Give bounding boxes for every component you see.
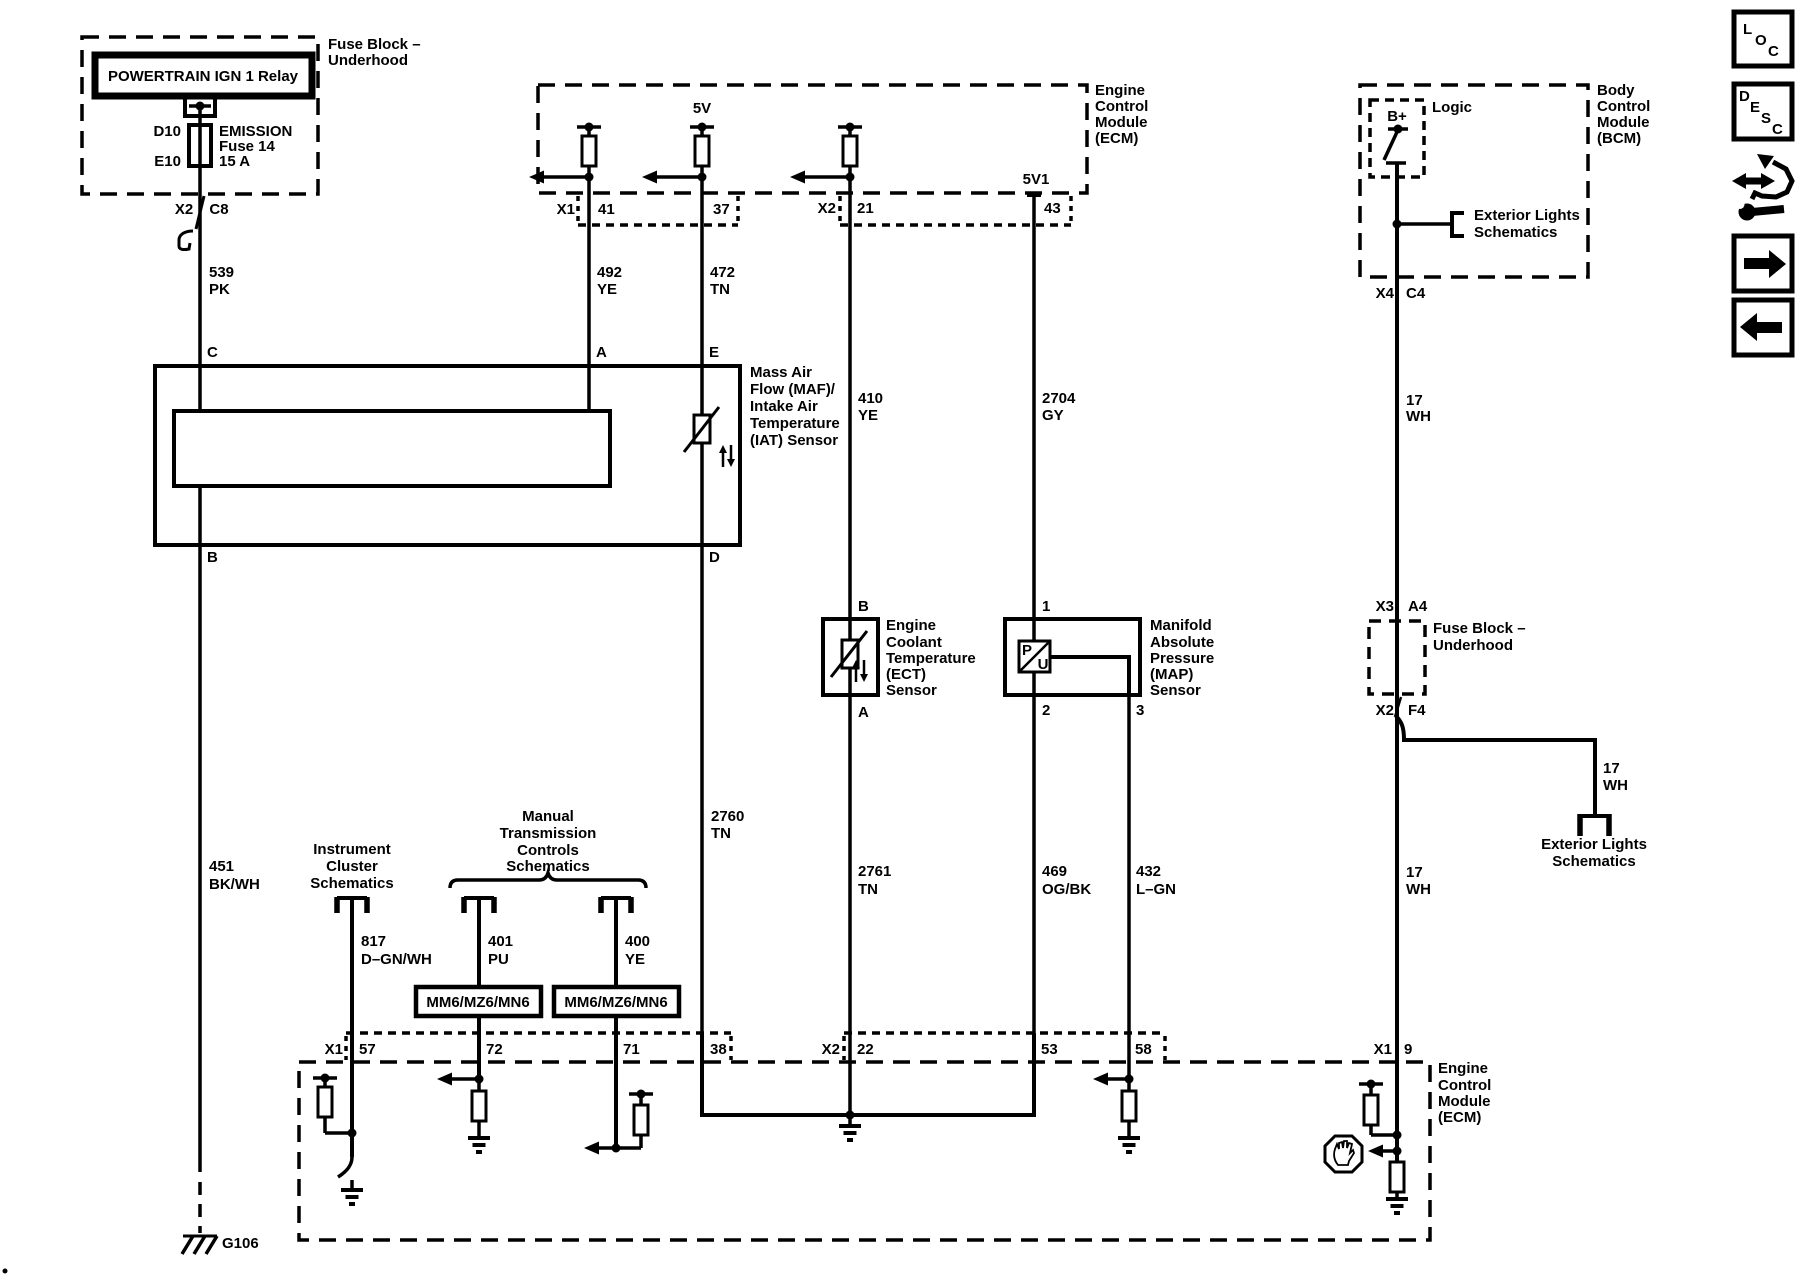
svg-text:Engine: Engine [886,617,936,634]
fuse block underhood (right) dashed box [1369,620,1526,694]
svg-text:2704: 2704 [1042,390,1076,407]
MAP sensor box [1005,598,1144,719]
svg-text:Engine: Engine [1095,82,1145,99]
manual transmission controls schematics label and brace [450,808,646,888]
manual trans connector 1 [464,897,494,913]
svg-text:17: 17 [1603,760,1620,777]
svg-text:D: D [709,549,720,566]
svg-text:WH: WH [1406,881,1431,898]
5V label [693,100,711,117]
svg-text:Module: Module [1438,1093,1491,1110]
svg-text:U: U [1038,656,1049,673]
svg-text:O: O [1755,32,1767,49]
ECM bottom dashed box [299,1060,1491,1240]
resistor at pin 57 (ECM internal) [313,1074,357,1138]
svg-text:Cluster: Cluster [326,858,378,875]
wire 492 YE [589,195,622,411]
ECM top dashed box [538,82,1148,193]
ECT sensor label [886,617,976,699]
svg-text:469: 469 [1042,863,1067,880]
svg-text:C8: C8 [209,201,228,218]
svg-text:72: 72 [486,1041,503,1058]
svg-text:X4: X4 [1376,285,1395,302]
svg-text:C: C [1772,121,1783,138]
svg-text:(ECM): (ECM) [1095,130,1138,147]
relay POWERTRAIN IGN 1 Relay [95,55,312,96]
svg-text:G106: G106 [222,1235,259,1252]
svg-text:Schematics: Schematics [1474,224,1557,241]
svg-text:D: D [1739,88,1750,105]
svg-text:PU: PU [488,951,509,968]
exterior lights schematics connector (right) [1541,814,1647,870]
wire 2760 TN [702,443,744,1115]
svg-text:A: A [596,344,607,361]
svg-text:Fuse Block –: Fuse Block – [1433,620,1526,637]
svg-text:2760: 2760 [711,808,744,825]
signal arrow at pin 41 [529,171,594,184]
resistor 5V pull-up at pin 21 [838,123,862,196]
svg-text:F4: F4 [1408,702,1426,719]
svg-text:Manual: Manual [522,808,574,825]
svg-text:YE: YE [625,951,645,968]
svg-text:E: E [1750,99,1760,116]
MAP internal wire to pin 3 [1050,657,1129,694]
svg-text:43: 43 [1044,200,1061,217]
resistor at pin 72 [468,1079,490,1152]
svg-text:WH: WH [1603,777,1628,794]
connector X2 / C8 labels [175,201,229,218]
svg-text:1: 1 [1042,598,1050,615]
svg-text:X1: X1 [325,1041,343,1058]
svg-text:X2: X2 [1376,702,1394,719]
svg-text:817: 817 [361,933,386,950]
signal arrow at pin 72 [437,1073,484,1086]
svg-text:539: 539 [209,264,234,281]
svg-text:Control: Control [1597,98,1650,115]
wire from B+ to X4/C4 [1395,163,1399,694]
svg-text:Temperature: Temperature [750,415,840,432]
svg-text:401: 401 [488,933,513,950]
wire 17 WH upper label [1406,392,1431,425]
svg-text:Engine: Engine [1438,1060,1488,1077]
svg-text:58: 58 [1135,1041,1152,1058]
svg-text:X1: X1 [1374,1041,1392,1058]
svg-text:17: 17 [1406,392,1423,409]
svg-text:B+: B+ [1387,108,1407,125]
svg-text:BK/WH: BK/WH [209,876,260,893]
wire 432 L-GN [1129,694,1176,1079]
svg-text:D–GN/WH: D–GN/WH [361,951,432,968]
wire 400 YE [616,898,650,1148]
svg-text:TN: TN [710,281,730,298]
svg-text:P: P [1022,642,1032,659]
svg-text:YE: YE [858,407,878,424]
relay output terminal [185,99,215,118]
resistor 5V pull-up at pin 37 [690,123,714,196]
BCM dashed box [1360,82,1650,277]
wire 472 TN [702,195,735,416]
wire 2704 GY (5V1) [1034,195,1076,620]
svg-text:PK: PK [209,281,230,298]
svg-text:15 A: 15 A [219,153,250,170]
connector X4 / C4 labels [1376,285,1426,302]
svg-text:38: 38 [710,1041,727,1058]
svg-text:Control: Control [1095,98,1148,115]
clip symbol at X2/C8 [179,231,193,250]
ground G106 [182,1235,259,1254]
signal arrow at pin 9 [1368,1145,1402,1158]
svg-text:Mass Air: Mass Air [750,364,812,381]
back arrow icon box [1734,300,1792,355]
svg-text:Transmission: Transmission [500,825,597,842]
signal arrow at pin 21 [790,171,855,184]
svg-text:MM6/MZ6/MN6: MM6/MZ6/MN6 [426,994,529,1011]
connector row X1 pins 57 72 71 38 [325,1033,731,1060]
diagnostic icon (arrows and wrench) [1732,154,1792,221]
svg-text:Module: Module [1597,114,1650,131]
svg-text:X1: X1 [557,201,575,218]
svg-text:400: 400 [625,933,650,950]
svg-text:(IAT) Sensor: (IAT) Sensor [750,432,838,449]
junction to exterior lights (BCM internal) [1393,207,1580,241]
svg-text:Logic: Logic [1432,99,1472,116]
wire 17 WH lower (main rail) [1397,694,1431,1162]
svg-text:Coolant: Coolant [886,634,942,651]
svg-text:S: S [1761,110,1771,127]
svg-text:TN: TN [858,881,878,898]
resistor at pin 71 [616,1090,653,1149]
svg-text:TN: TN [711,825,731,842]
svg-text:5V: 5V [693,100,711,117]
svg-text:9: 9 [1404,1041,1412,1058]
svg-text:X2: X2 [822,1041,840,1058]
signal arrow at pin 58 [1093,1073,1134,1086]
svg-text:432: 432 [1136,863,1161,880]
connector row X2 pins 21 43 [818,196,1071,225]
LOC icon box [1734,12,1792,66]
hand icon (driver alert) [1325,1136,1362,1172]
svg-text:(ECT): (ECT) [886,666,926,683]
svg-text:Control: Control [1438,1077,1491,1094]
svg-text:L: L [1743,21,1752,38]
svg-text:B: B [207,549,218,566]
wire 539 PK [196,106,234,411]
wire 451 BK/WH [200,486,260,1233]
svg-text:C4: C4 [1406,285,1426,302]
IAT thermistor symbol [684,407,735,467]
svg-text:37: 37 [713,201,730,218]
MAF pin letters [207,344,720,566]
svg-text:(ECM): (ECM) [1438,1109,1481,1126]
svg-text:Flow (MAF)/: Flow (MAF)/ [750,381,836,398]
svg-text:E10: E10 [154,153,181,170]
manual trans connector 2 [601,897,631,913]
switch blade at pin 57 [338,1157,352,1177]
svg-text:Sensor: Sensor [1150,682,1201,699]
branch wire 17 WH to exterior lights [1396,716,1628,816]
svg-text:2: 2 [1042,702,1050,719]
MAF/IAT sensor outer box [155,366,740,545]
MAF sensor label [750,364,840,449]
svg-text:OG/BK: OG/BK [1042,881,1091,898]
svg-text:Schematics: Schematics [1552,853,1635,870]
svg-text:Instrument: Instrument [313,841,391,858]
MM6/MZ6/MN6 box 1 [416,987,541,1016]
fuse F14 EMISSION 15 A [153,123,292,170]
svg-text:71: 71 [623,1041,640,1058]
page artifact dot [3,1269,8,1274]
svg-text:410: 410 [858,390,883,407]
svg-text:53: 53 [1041,1041,1058,1058]
svg-text:2761: 2761 [858,863,891,880]
svg-text:Intake Air: Intake Air [750,398,818,415]
MAF inner element box [174,411,610,486]
connector row X2 pins 22 53 58 [822,1033,1165,1060]
svg-text:451: 451 [209,858,234,875]
svg-text:X2: X2 [818,200,836,217]
svg-text:5V1: 5V1 [1023,171,1050,188]
svg-text:L–GN: L–GN [1136,881,1176,898]
svg-text:3: 3 [1136,702,1144,719]
svg-text:MM6/MZ6/MN6: MM6/MZ6/MN6 [564,994,667,1011]
resistor at pin 58 [1118,1079,1140,1152]
svg-text:Temperature: Temperature [886,650,976,667]
wire 2761 TN [850,694,891,1115]
svg-text:Manifold: Manifold [1150,617,1212,634]
wire 401 PU [479,898,513,1079]
B+ terminal and switch [1384,108,1408,163]
wire 817 D-GN/WH [352,898,432,1157]
svg-text:X3: X3 [1376,598,1394,615]
internal ground bus (pins 38 22 53) [702,1033,1034,1120]
MAP P/U transducer symbol [1019,620,1050,694]
signal arrow at pin 71 [584,1142,621,1155]
resistor 5V pull-up at pin 41 [577,123,601,196]
MAP sensor label [1150,617,1214,699]
svg-text:Absolute: Absolute [1150,634,1214,651]
connector row X1 pins 41 37 [557,196,738,225]
connector X2 / F4 labels [1376,697,1427,719]
logic sub-box [1370,99,1472,177]
DESC icon box [1734,84,1792,139]
svg-text:Exterior Lights: Exterior Lights [1474,207,1580,224]
svg-text:GY: GY [1042,407,1064,424]
5V1 terminal [1023,171,1050,195]
wire 410 YE [850,195,883,620]
svg-text:Pressure: Pressure [1150,650,1214,667]
svg-text:472: 472 [710,264,735,281]
svg-text:492: 492 [597,264,622,281]
signal arrow at pin 37 [642,171,707,184]
svg-text:B: B [858,598,869,615]
svg-text:X2: X2 [175,201,193,218]
earth ground below pin 57 [341,1180,363,1204]
connector X1 pin 9 labels [1374,1041,1413,1058]
svg-text:21: 21 [857,200,874,217]
svg-text:C: C [1768,43,1779,60]
svg-text:A4: A4 [1408,598,1428,615]
svg-text:Sensor: Sensor [886,682,937,699]
svg-text:41: 41 [598,201,615,218]
instrument cluster schematics connector [310,841,393,913]
svg-text:(MAP): (MAP) [1150,666,1193,683]
svg-text:POWERTRAIN IGN 1 Relay: POWERTRAIN IGN 1 Relay [108,68,299,85]
svg-text:Module: Module [1095,114,1148,131]
connector X3 / A4 labels [1376,598,1428,615]
svg-text:C: C [207,344,218,361]
ECT sensor box [823,598,878,721]
svg-text:Controls: Controls [517,842,579,859]
wire 469 OG/BK [1034,694,1091,1115]
svg-text:Fuse Block –: Fuse Block – [328,36,421,53]
resistor at pin 9 (left branch) [1359,1080,1402,1140]
MM6/MZ6/MN6 box 2 [554,987,679,1016]
svg-text:WH: WH [1406,408,1431,425]
svg-text:Schematics: Schematics [310,875,393,892]
svg-text:D10: D10 [153,123,181,140]
fuse block underhood (top left) dashed box [82,36,421,194]
resistor below pin 9 to ground [1386,1151,1408,1213]
forward arrow icon box [1734,236,1792,291]
svg-text:Underhood: Underhood [328,52,408,69]
ECT thermistor symbol [831,620,868,694]
svg-text:17: 17 [1406,864,1423,881]
svg-text:A: A [858,704,869,721]
svg-text:22: 22 [857,1041,874,1058]
earth ground on bus [839,1115,861,1140]
svg-text:(BCM): (BCM) [1597,130,1641,147]
svg-text:57: 57 [359,1041,376,1058]
svg-text:Underhood: Underhood [1433,637,1513,654]
svg-text:Body: Body [1597,82,1635,99]
svg-text:E: E [709,344,719,361]
svg-text:YE: YE [597,281,617,298]
svg-text:Exterior Lights: Exterior Lights [1541,836,1647,853]
